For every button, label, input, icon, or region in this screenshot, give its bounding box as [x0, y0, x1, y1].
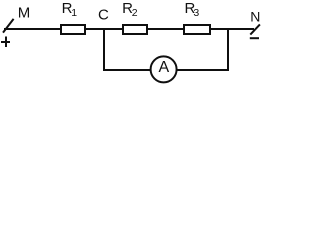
svg-text:A: A — [158, 59, 169, 76]
wire node C down to ammeter branch — [103, 29, 105, 71]
wire M to R1 — [4, 28, 61, 30]
bottom wire ammeter to right junction — [176, 69, 229, 71]
svg-text:1: 1 — [71, 7, 77, 19]
wire R1 to node C — [85, 28, 123, 30]
svg-text:C: C — [98, 7, 109, 24]
svg-text:M: M — [18, 4, 31, 21]
resistor R3 — [184, 25, 210, 34]
bottom wire node C to ammeter — [103, 69, 151, 71]
label R3 — [185, 0, 200, 19]
plus sign at terminal M — [1, 37, 10, 48]
wire R3 to terminal N — [210, 28, 254, 30]
svg-text:N: N — [250, 8, 260, 24]
ammeter A circle — [151, 56, 177, 82]
wire R2 to R3 — [147, 28, 184, 30]
resistor R2 — [123, 25, 147, 34]
wire right junction down to ammeter branch — [227, 29, 229, 71]
terminal N clamp stroke — [250, 24, 260, 34]
svg-text:2: 2 — [132, 7, 138, 19]
resistor R1 — [61, 25, 85, 34]
svg-text:3: 3 — [193, 7, 199, 19]
label R2 — [122, 0, 138, 19]
label R1 — [62, 0, 78, 19]
terminal M clamp stroke — [3, 19, 14, 33]
minus sign at terminal N — [250, 37, 259, 39]
